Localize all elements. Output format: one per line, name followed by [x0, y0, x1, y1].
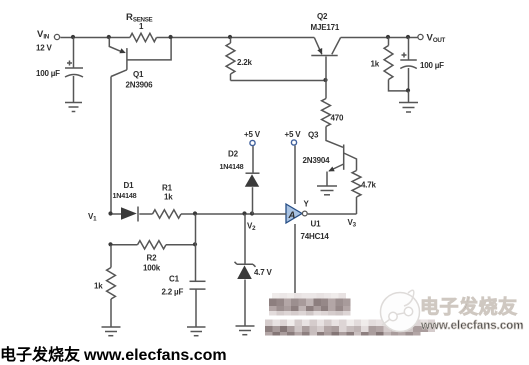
svg-text:Y: Y	[304, 200, 310, 209]
gate U1 74HC14 inverter	[286, 204, 307, 223]
ground C1	[187, 327, 206, 336]
node junction output cap top	[406, 35, 410, 39]
node junction Q1 emitter	[107, 35, 111, 39]
node junction output cap bottom	[406, 88, 410, 92]
watermark logo elecfans	[381, 290, 420, 331]
svg-text:100 µF: 100 µF	[36, 69, 60, 78]
node junction R1 right	[193, 211, 197, 215]
svg-text:74HC14: 74HC14	[301, 232, 330, 241]
svg-text:1k: 1k	[164, 193, 173, 202]
wire inverter output to V3	[308, 213, 357, 215]
resistor R2	[138, 241, 167, 249]
resistor 4.7k	[352, 171, 361, 198]
svg-text:4.7k: 4.7k	[361, 181, 377, 190]
terminal VOUT	[418, 34, 423, 39]
wire RSENSE to rail right	[157, 37, 315, 39]
svg-text:R1: R1	[162, 184, 173, 193]
svg-text:1N4148: 1N4148	[220, 162, 244, 171]
node junction 1k out top	[386, 35, 390, 39]
zener diode 4.7V	[235, 262, 256, 326]
svg-text:www.elecfans.com: www.elecfans.com	[420, 320, 523, 332]
terminal +5V right	[291, 140, 296, 145]
node junction Q2 base	[323, 78, 327, 82]
ground 1k left	[102, 327, 121, 336]
svg-text:电子发烧友: 电子发烧友	[420, 295, 518, 318]
wire to output ground	[408, 91, 410, 103]
svg-text:4.7 V: 4.7 V	[254, 268, 273, 277]
svg-text:C1: C1	[169, 275, 180, 284]
node V2 junction D2	[250, 211, 254, 215]
watermark logo elecfans	[0, 347, 1, 364]
svg-text:R2: R2	[147, 254, 158, 263]
node junction input cap	[71, 35, 75, 39]
terminal VIN	[54, 34, 59, 39]
mosaic censored block upper	[0, 347, 1, 364]
wire +5V to D2	[252, 146, 254, 173]
svg-text:+5 V: +5 V	[285, 130, 302, 139]
svg-text:12 V: 12 V	[36, 44, 53, 53]
svg-text:2N3906: 2N3906	[126, 81, 154, 90]
svg-text:470: 470	[331, 114, 344, 123]
ground Q3 emitter	[317, 186, 337, 195]
wire input cap bottom lead	[73, 76, 75, 103]
wire top rail VIN to RSENSE	[60, 37, 130, 39]
transistor Q1 2N3906	[109, 38, 127, 77]
svg-text:+5 V: +5 V	[244, 130, 261, 139]
svg-text:U1: U1	[311, 220, 322, 229]
wire Q1 base to RSENSE right	[128, 39, 172, 60]
wire Q1 collector down to V1	[110, 77, 112, 215]
wire R2 row	[111, 244, 196, 246]
mosaic censored block upper	[269, 293, 350, 316]
node junction R2 right	[193, 242, 197, 246]
svg-text:A: A	[288, 210, 296, 221]
svg-text:Q3: Q3	[308, 131, 319, 140]
mosaic censored block lower strip	[265, 320, 435, 336]
wire 4.7k to V3	[356, 197, 358, 214]
resistor 470	[322, 99, 331, 127]
resistor R1	[153, 210, 182, 218]
wire input cap top lead	[73, 38, 75, 68]
svg-text:2.2 µF: 2.2 µF	[162, 288, 184, 297]
node V1 junction	[108, 211, 112, 215]
diode D1 1N4148	[121, 207, 138, 222]
svg-text:D1: D1	[124, 181, 135, 190]
svg-text:2.2k: 2.2k	[237, 58, 253, 67]
resistor 2.2k	[226, 38, 235, 81]
resistor RSENSE	[130, 33, 157, 41]
node junction zener top	[242, 211, 246, 215]
ground input cap	[65, 103, 82, 112]
svg-text:1k: 1k	[371, 60, 380, 69]
svg-text:100 µF: 100 µF	[420, 61, 444, 70]
ground zener	[236, 326, 255, 335]
svg-text:Q2: Q2	[317, 12, 328, 21]
resistor 1k left	[107, 268, 116, 300]
diode D2 1N4148	[245, 173, 260, 214]
node junction RSENSE right	[169, 35, 173, 39]
svg-text:2N3904: 2N3904	[303, 156, 331, 165]
resistor 1k output	[384, 38, 408, 91]
svg-text:100k: 100k	[143, 264, 161, 273]
wire 2.2k bottom to Q2 base junction	[231, 80, 327, 82]
capacitor CIN 100uF polarized	[65, 61, 83, 78]
mosaic censored block lower strip	[0, 347, 1, 364]
svg-text:D2: D2	[228, 150, 239, 159]
terminal +5V left	[250, 140, 255, 145]
capacitor COUT 100uF polarized	[400, 38, 417, 91]
node junction R2 left	[108, 242, 112, 246]
wire Q2 base to 470	[325, 81, 327, 99]
svg-text:1N4148: 1N4148	[113, 191, 137, 200]
svg-text:1k: 1k	[94, 282, 103, 291]
svg-text:MJE171: MJE171	[311, 23, 340, 32]
transistor Q2 MJE171	[311, 38, 340, 81]
wire V1 down to 1k	[110, 245, 112, 268]
wire rail Q2 collector to VOUT	[341, 37, 418, 39]
wire +5V down to mosaic	[294, 146, 296, 297]
svg-text:Q1: Q1	[133, 70, 144, 79]
wire 1k to ground	[110, 299, 112, 327]
wire zener branch	[244, 214, 246, 264]
wire main node row V1 to inverter input	[111, 213, 287, 215]
ground output	[399, 103, 418, 113]
transistor Q3 2N3904	[326, 127, 357, 187]
node junction 2.2k top	[228, 35, 232, 39]
wire V2 branch vertical	[195, 214, 197, 281]
capacitor C1 2.2uF	[190, 281, 206, 326]
